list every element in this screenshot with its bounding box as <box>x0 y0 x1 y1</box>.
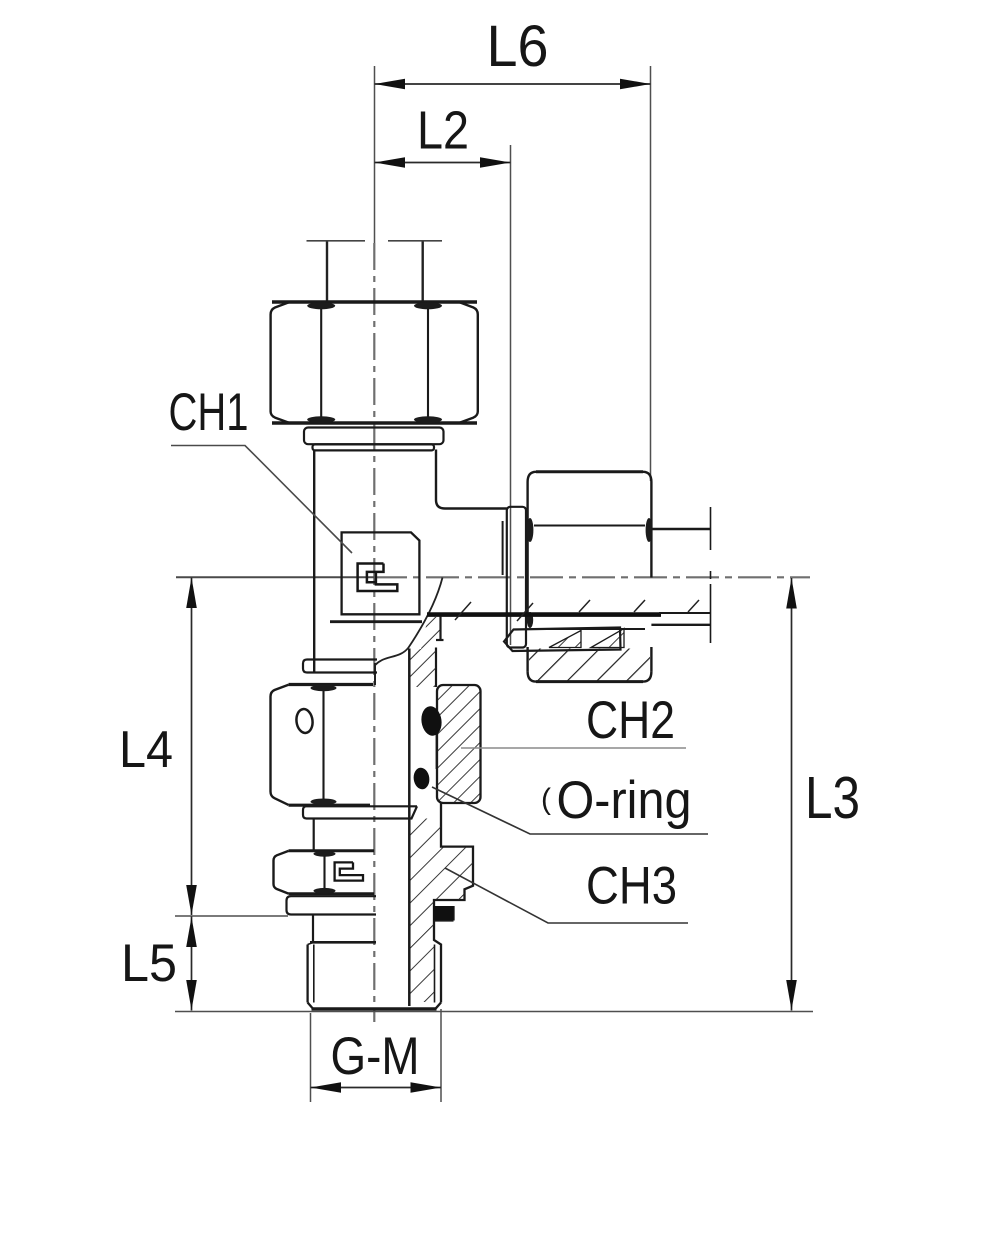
svg-text:L5: L5 <box>121 934 177 993</box>
CH3 label and leader <box>445 857 688 924</box>
branch washer <box>503 507 526 648</box>
side nut sectioned bottom (hatched) <box>529 649 650 682</box>
vertical axis extension (top) <box>374 66 376 243</box>
svg-text:CH2: CH2 <box>586 691 675 750</box>
dimension L2 <box>375 101 511 646</box>
centerlines <box>176 66 810 1022</box>
dimension L5 <box>121 917 813 1012</box>
horizontal axis solid left part <box>176 576 374 578</box>
CH2 body hex (sectioned) <box>437 685 481 803</box>
washer C below small hex <box>287 896 377 941</box>
dimension L4 <box>119 578 288 917</box>
svg-text:L6: L6 <box>487 14 549 79</box>
body neck <box>314 450 507 672</box>
cutting ring (ferrule) <box>504 628 624 652</box>
svg-text:CH1: CH1 <box>169 383 249 442</box>
O-ring (section dots) <box>420 705 444 737</box>
thick section edge under branch <box>427 612 661 617</box>
CH1 spiral glyph <box>358 564 398 592</box>
tube walls <box>326 242 328 302</box>
washer under top nut <box>304 428 444 451</box>
right sectioned profile of locknut and stud <box>433 803 473 1003</box>
O-ring label and leader <box>432 771 708 834</box>
vertical dash-dot axis <box>373 243 375 1022</box>
svg-text:(: ( <box>541 783 551 816</box>
CH2 label and leader <box>461 691 686 750</box>
big body hex (CH2 view, left half) <box>271 685 374 806</box>
top tube break line <box>307 241 443 301</box>
svg-text:CH3: CH3 <box>586 857 677 916</box>
groove / stud step under branch <box>436 617 444 688</box>
dimension L6 <box>375 14 651 481</box>
svg-text:L3: L3 <box>805 765 860 831</box>
CH1 body hex square <box>330 532 422 621</box>
bore wall line <box>408 649 411 1007</box>
hatch of right section <box>411 819 474 1003</box>
small locknut hex (CH3 view, left half) <box>274 851 375 894</box>
svg-text:G-M: G-M <box>331 1027 420 1086</box>
CH1 label and leader <box>169 383 353 553</box>
dimension G-M <box>311 1009 442 1102</box>
side swivel nut <box>527 472 653 682</box>
section break-out freehand line <box>375 578 442 666</box>
threaded stud G-M <box>308 942 441 1009</box>
horizontal dash-dot axis <box>374 576 810 578</box>
branch tube stub <box>651 507 710 643</box>
washer A above big hex <box>303 660 377 673</box>
dimension L3 <box>786 578 860 1011</box>
hatched band above bore end <box>409 617 441 687</box>
CH3 spiral glyph <box>335 862 363 880</box>
seal ring (black) <box>433 906 454 920</box>
hatch ticks through tube wall <box>455 600 699 621</box>
svg-text:O-ring: O-ring <box>557 771 692 830</box>
svg-text:L2: L2 <box>417 101 469 161</box>
washer B below big hex <box>303 806 417 850</box>
svg-text:L4: L4 <box>119 721 173 779</box>
top tube nut (hex) <box>271 302 478 423</box>
